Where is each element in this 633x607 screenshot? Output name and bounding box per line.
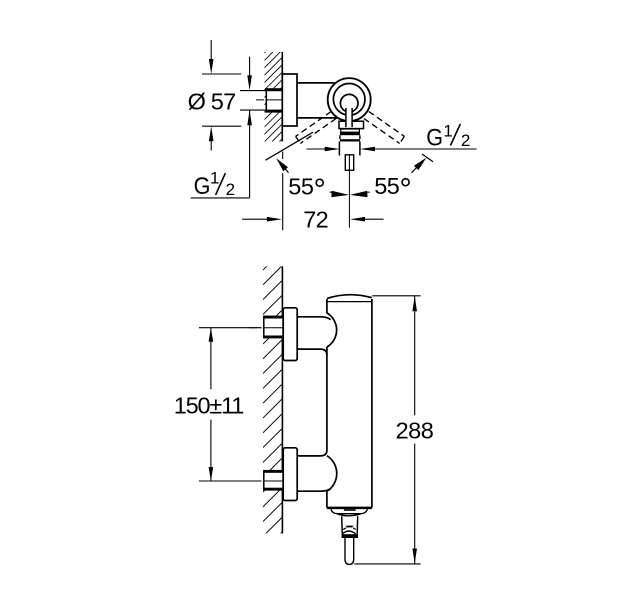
lever stem (top view) xyxy=(346,104,352,128)
right swivel limit tick xyxy=(422,154,433,162)
G 1/2 union extension lines xyxy=(240,91,266,111)
body cylinder right edge xyxy=(371,299,373,508)
wall hatching (front view) xyxy=(263,251,283,552)
lower union centerline xyxy=(249,480,276,482)
72 dimension extension line xyxy=(282,152,284,231)
lower hex nut (front view) xyxy=(264,470,283,491)
wall surface line (front view) xyxy=(281,266,283,533)
wall hatching (top view) xyxy=(264,35,282,157)
right 55 degree leader arrow xyxy=(412,158,427,173)
body cylinder left edge xyxy=(326,299,328,508)
svg-text:72: 72 xyxy=(303,207,328,233)
G 1/2 left label xyxy=(194,169,235,201)
150 dimension extension lines xyxy=(199,328,261,481)
G 1/2 outlet dimension line xyxy=(307,147,477,152)
svg-text:2: 2 xyxy=(226,180,235,199)
svg-text:G: G xyxy=(426,124,443,151)
288 dimension line and arrows xyxy=(412,296,417,564)
G 1/2 union dimension arrows xyxy=(191,57,252,198)
left 55 degree leader arrow xyxy=(276,158,288,173)
left swivel limit line xyxy=(266,132,314,160)
svg-text:1: 1 xyxy=(443,121,452,140)
bottom cap slot xyxy=(344,509,356,511)
centerline horizontal (top view) xyxy=(256,99,291,101)
G 1/2 right label xyxy=(426,121,470,151)
body top cap xyxy=(327,295,372,302)
svg-text:2: 2 xyxy=(461,131,470,150)
dashed swivel lever left position xyxy=(296,112,337,144)
body bottom seam xyxy=(327,507,372,510)
upper S-union horn xyxy=(297,317,330,355)
svg-text:288: 288 xyxy=(396,418,434,444)
diameter 57 dimension arrows xyxy=(209,40,214,151)
outlet dark ring xyxy=(342,534,358,537)
upper hex nut (front view) xyxy=(264,316,283,339)
angle reference arrows at lever centerline xyxy=(330,191,370,198)
72 dimension line and arrows xyxy=(242,217,384,222)
escutcheon inner circle (top view) xyxy=(333,84,365,116)
escutcheon outer circle (top view) xyxy=(328,78,371,121)
outlet thread tube (top view) xyxy=(339,142,360,156)
svg-text:G: G xyxy=(194,173,211,200)
escutcheon neck (top view) xyxy=(339,121,364,128)
svg-text:1: 1 xyxy=(210,169,219,188)
wall flange (top view) xyxy=(282,74,297,126)
wall surface line (top view) xyxy=(281,52,283,142)
outlet pipe xyxy=(345,538,354,565)
lever knob circle (top view) xyxy=(340,94,358,112)
diameter 57 extension lines xyxy=(202,74,241,126)
outlet collar xyxy=(342,516,358,537)
upper wall escutcheon xyxy=(283,308,297,361)
upper union knuckle bulge xyxy=(327,313,337,347)
svg-text:Ø 57: Ø 57 xyxy=(188,88,236,114)
lower S-union horn xyxy=(297,451,330,492)
outlet collar bands (top view) xyxy=(340,132,360,141)
hex union nut (top view) xyxy=(265,88,282,112)
upper union centerline xyxy=(249,327,276,329)
collar ring (top view) xyxy=(341,129,360,132)
outlet waist marks xyxy=(343,527,356,530)
bottom cap xyxy=(331,509,367,516)
lever centerline vertical (top view) xyxy=(348,170,350,227)
lower wall escutcheon xyxy=(283,448,297,501)
lever tip stick (top view) xyxy=(345,155,353,171)
288 dimension extension lines xyxy=(354,296,420,564)
body barrel (top view) xyxy=(297,83,341,118)
lower union knuckle bulge xyxy=(327,456,337,492)
dashed swivel lever right position xyxy=(364,112,405,144)
150 dimension line and arrows xyxy=(209,328,214,481)
svg-text:150±11: 150±11 xyxy=(174,392,243,418)
outlet check valve dome xyxy=(342,531,355,534)
